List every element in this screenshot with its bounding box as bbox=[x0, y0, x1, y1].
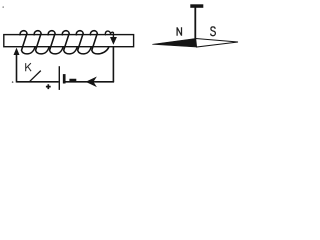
compass hanger bar bbox=[190, 4, 203, 8]
compass needle S half (white) bbox=[196, 39, 238, 48]
coil turn 4 (loop + front diagonal + bottom bump) bbox=[62, 31, 77, 54]
iron core bar bbox=[4, 35, 134, 47]
coil final over-arc bbox=[105, 31, 113, 37]
coil turn 6 (loop + front diagonal + bottom bump) bbox=[90, 31, 109, 54]
current arrow up into coil bbox=[14, 48, 20, 55]
plus label bbox=[46, 84, 51, 89]
compass pivot stem bbox=[194, 7, 196, 38]
coil turn 1 (loop + front diagonal + bottom bump) bbox=[20, 31, 35, 54]
battery positive plate (long) bbox=[58, 66, 60, 90]
stray dot near corner bbox=[12, 81, 14, 83]
coil turn 3 (loop + front diagonal + bottom bump) bbox=[48, 31, 63, 54]
battery negative plate (short thick) bbox=[63, 74, 66, 83]
coil turn 2 (loop + front diagonal + bottom bump) bbox=[34, 31, 49, 54]
bottom wire right segment bbox=[65, 81, 114, 83]
switch K blade bbox=[29, 71, 41, 82]
minus label bbox=[69, 79, 76, 81]
switch label K bbox=[26, 63, 31, 71]
current arrow down on coil lead bbox=[110, 37, 117, 45]
label S bbox=[211, 27, 216, 36]
bottom wire left segment bbox=[17, 81, 59, 83]
current arrow left on bottom wire bbox=[86, 77, 95, 86]
stray dot top-left bbox=[2, 6, 4, 8]
coil turn 5 (loop + front diagonal + bottom bump) bbox=[76, 31, 91, 54]
compass needle N half (black) bbox=[152, 39, 196, 48]
label N bbox=[177, 27, 181, 36]
right wire down from coil bbox=[112, 47, 114, 82]
left wire up bbox=[16, 54, 18, 83]
